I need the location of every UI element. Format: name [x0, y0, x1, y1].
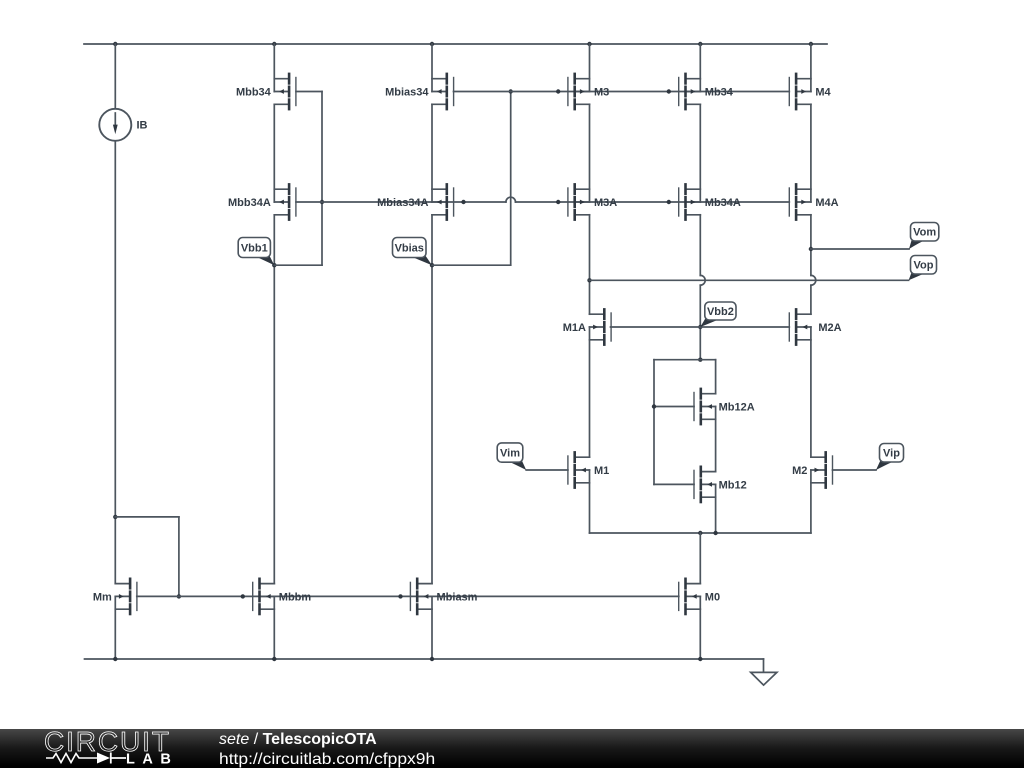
transistor M3 [568, 74, 609, 109]
svg-text:M4: M4 [815, 86, 831, 98]
wire M2 gate to Vip [833, 469, 877, 471]
transistor Mb12 [694, 467, 747, 502]
svg-text:Mbb34A: Mbb34A [228, 197, 271, 209]
svg-text:M3A: M3A [594, 197, 617, 209]
node flag Vop [909, 256, 937, 281]
logo diode [97, 753, 110, 764]
CircuitLab logo [0, 729, 220, 768]
wire M0 source to ground rail [699, 596, 701, 659]
svg-text:IB: IB [137, 120, 148, 132]
wire Mb12A drain-gate bracket [652, 360, 716, 485]
svg-text:M3: M3 [594, 86, 609, 98]
wire Mb34 drain to Mb34A source [699, 104, 701, 202]
transistor M1 [568, 452, 609, 487]
wire Mm gate loop [115, 517, 181, 599]
svg-text:Vip: Vip [883, 448, 900, 460]
wire Mb12A source to Mb12 drain [715, 407, 717, 472]
svg-text:M4A: M4A [815, 197, 838, 209]
wire Mb34 source from VDD [699, 44, 701, 92]
wire Mm source to ground rail [114, 596, 116, 659]
transistor M0 [679, 579, 720, 614]
logo resistor zigzag [46, 754, 97, 763]
wire Mbb34 gate to Vbb1 net [274, 92, 324, 266]
transistor M1A [563, 309, 611, 344]
wire VDD top rail [84, 43, 827, 45]
node flag Vbias [393, 238, 433, 266]
wire Mbiasm source to ground rail [431, 596, 433, 659]
node flag Vbb1 [238, 238, 274, 266]
transistor Mbias34 [385, 74, 454, 109]
current source IB [99, 109, 147, 141]
svg-text:Vbb1: Vbb1 [241, 242, 268, 254]
wire bottom mirror gate net [137, 594, 679, 598]
svg-text:Vbb2: Vbb2 [707, 306, 734, 318]
wire Mb34A drain to Vbb2 node [700, 215, 705, 327]
wire Mbb34 drain to Mbb34A source [273, 104, 275, 202]
svg-text:LAB: LAB [126, 752, 178, 768]
svg-text:M2: M2 [792, 465, 807, 477]
svg-text:Mb34A: Mb34A [705, 197, 741, 209]
footer title text [219, 730, 417, 769]
node flag Vom [909, 223, 939, 250]
svg-text:M1: M1 [594, 465, 609, 477]
svg-text:Vbias: Vbias [395, 242, 424, 254]
transistor M4 [789, 74, 831, 109]
wire Mbb34A drain down to Mbbm drain [272, 215, 276, 584]
svg-text:Mbbm: Mbbm [279, 591, 312, 603]
wire row1 gate net Vbias [454, 89, 790, 93]
transistor M2 [792, 452, 832, 487]
wire M3 drain to M3A source [589, 104, 591, 202]
wire M1 source to tail [589, 470, 591, 533]
svg-text:Mbiasm: Mbiasm [437, 591, 478, 603]
wire Mbbm source to ground rail [273, 596, 275, 659]
wire M3 source from VDD [589, 44, 591, 92]
wire Mbias34 source from VDD [431, 44, 433, 92]
wire Mbias34 drain to Mbias34A source [431, 104, 433, 202]
wire M4 source from VDD [810, 44, 812, 92]
svg-text:Mm: Mm [93, 591, 112, 603]
wire M3A drain to M1A drain / Vop node [587, 215, 591, 314]
wire M4A drain to M2A drain / Vom node [809, 215, 816, 314]
transistor Mbiasm [410, 579, 477, 614]
wire tail line of input pair [590, 531, 811, 535]
svg-text:Mbias34: Mbias34 [385, 86, 429, 98]
wire Vbb2 node to Mb12A bracket [698, 325, 702, 362]
transistor Mbbm [253, 579, 312, 614]
svg-text:Mbb34: Mbb34 [236, 86, 272, 98]
wire Mbias34A drain down to Mbiasm drain [430, 215, 434, 584]
svg-text:Vom: Vom [913, 227, 936, 239]
wire tail to M0 drain [699, 533, 701, 584]
svg-text:Vim: Vim [500, 447, 520, 459]
transistor Mbb34 [236, 74, 296, 109]
transistor M2A [789, 309, 841, 344]
transistor Mbb34A [228, 184, 296, 219]
wire Mb12 source to tail [715, 484, 717, 533]
transistor Mb12A [694, 389, 755, 424]
wire M1A M2A gate line [611, 326, 790, 328]
transistor Mb34 [679, 74, 734, 109]
wire row2 gate net Vbb1 [296, 197, 789, 204]
wire Vom output [811, 248, 909, 250]
transistor Mbias34A [377, 184, 453, 219]
svg-text:Mb12: Mb12 [719, 479, 747, 491]
wire M4 drain to M4A source [810, 104, 812, 202]
transistor M4A [789, 184, 838, 219]
transistor M3A [568, 184, 617, 219]
svg-text:Vop: Vop [914, 260, 934, 272]
wire M2 source to tail [810, 470, 812, 533]
svg-text:Mb12A: Mb12A [719, 401, 755, 413]
transistor Mm [93, 579, 137, 614]
node flag Vbb2 [700, 302, 736, 327]
transistor Mb34A [679, 184, 741, 219]
wire Mbb34 source from VDD [273, 44, 275, 92]
svg-text:M0: M0 [705, 591, 720, 603]
wire VDD to IB [114, 44, 116, 109]
wire M2A source to M2 drain [810, 327, 812, 457]
node flag Vip [876, 444, 904, 471]
junction dots on VDD rail [113, 42, 813, 46]
wire Vim to M1 gate [526, 469, 568, 471]
wire M1A source to M1 drain [589, 327, 591, 457]
wire ground rail [85, 657, 764, 673]
ground symbol [751, 672, 777, 685]
wire Vop output [590, 279, 909, 281]
wire IB to Mm drain [113, 141, 117, 584]
svg-text:Mb34: Mb34 [705, 86, 734, 98]
svg-text:M2A: M2A [818, 322, 841, 334]
node flag Vim [497, 443, 526, 470]
svg-text:Mbias34A: Mbias34A [377, 197, 428, 209]
svg-text:M1A: M1A [563, 322, 586, 334]
wire Vbias net vertical [432, 89, 513, 265]
